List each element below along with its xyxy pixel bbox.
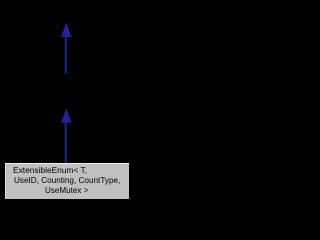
inheritance graph arrows [0,0,133,208]
arrow 2 (lower inheritance arrow, midnightblue) [61,109,72,165]
label line 2 [14,177,120,185]
arrow 1 (top inheritance arrow, midnightblue) [61,23,72,74]
label line 1 [13,167,87,175]
label line 3 [45,187,88,195]
node box ExtensibleEnum [5,163,129,198]
